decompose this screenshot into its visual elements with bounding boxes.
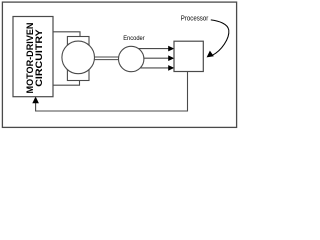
svg-text:Encoder: Encoder <box>123 35 145 42</box>
svg-text:CIRCUITRY: CIRCUITRY <box>34 29 44 87</box>
svg-text:Processor: Processor <box>181 16 209 23</box>
